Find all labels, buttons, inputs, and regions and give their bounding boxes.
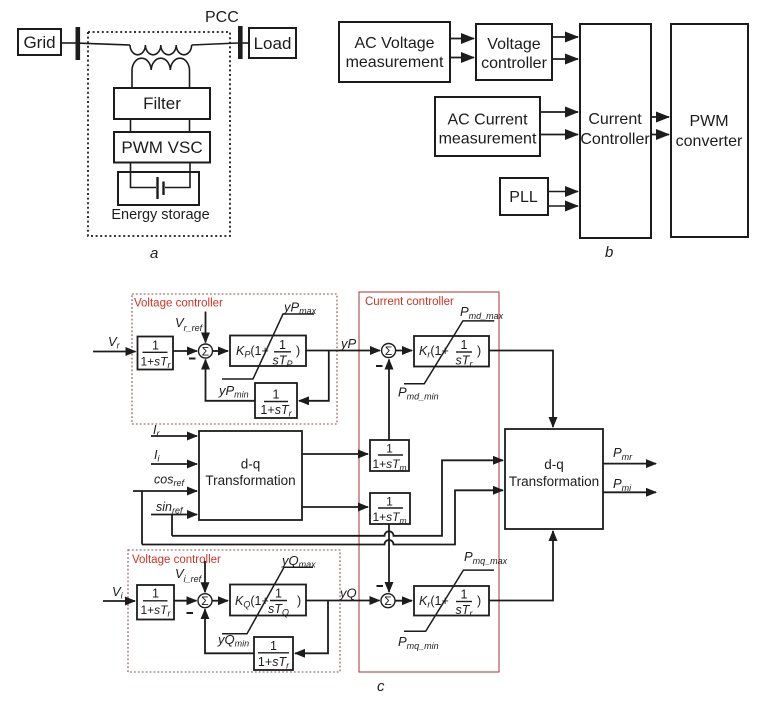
wire sin_ref branch down <box>171 515 173 536</box>
svg-text:measurement: measurement <box>346 54 444 71</box>
saturation limits on KQ block <box>222 567 313 634</box>
svg-text:KQ(1+: KQ(1+ <box>235 594 269 610</box>
svg-text:Grid: Grid <box>23 33 55 52</box>
wire Pmi output <box>603 491 656 493</box>
svg-text:d-q: d-q <box>241 457 261 472</box>
svg-text:measurement: measurement <box>439 131 537 148</box>
box Current Controller (b) <box>580 24 651 238</box>
wire Filter to PWM VSC right <box>189 119 191 132</box>
svg-text:Current: Current <box>588 111 642 128</box>
block lag 1/(1+sTm) d <box>370 440 409 473</box>
wire bus to transformer primary <box>80 43 130 45</box>
wire Pmr output <box>603 463 656 465</box>
box AC Current measurement <box>435 97 540 156</box>
minus sign lower CC sum <box>377 585 384 587</box>
box Grid <box>18 29 61 55</box>
svg-text:Load: Load <box>254 34 292 53</box>
wire Filter to PWM VSC left <box>130 119 132 132</box>
wire AC Voltage meas to Voltage controller 2 <box>450 57 474 59</box>
svg-text:1: 1 <box>461 588 468 602</box>
wire dq1 d-output to lag m1 <box>302 453 368 455</box>
svg-text:Current controller: Current controller <box>365 296 454 308</box>
wire cos_ref route to dq2 lower input with hop <box>142 490 503 544</box>
svg-text:1+sTr: 1+sTr <box>260 403 292 419</box>
block PI Kr lower <box>414 586 489 619</box>
svg-text:PCC: PCC <box>205 9 239 26</box>
summing junction lower VC <box>198 594 212 609</box>
wire Ir input <box>151 435 197 437</box>
wire KQ output drop to feedback lower <box>295 601 328 654</box>
minus sign upper VC sum <box>189 358 196 360</box>
svg-text:Transformation: Transformation <box>509 474 599 489</box>
enclosure Voltage controller (top, red dashed) <box>132 294 337 424</box>
svg-text:): ) <box>297 594 301 608</box>
summing junction upper VC <box>199 344 213 359</box>
wire KP output drop to feedback upper <box>299 351 329 401</box>
block PI Kr upper <box>414 336 489 369</box>
wire Vr input <box>93 351 136 353</box>
wire transformer to PCC bus <box>192 43 238 45</box>
dashed enclosure a <box>88 32 230 236</box>
wire PLL to Current Controller 1 <box>548 191 578 193</box>
svg-text:PLL: PLL <box>509 189 538 206</box>
wire sum to Kr block upper <box>396 350 412 352</box>
svg-text:Transformation: Transformation <box>205 473 295 488</box>
wire sum to KQ block <box>212 600 228 602</box>
saturation limits on Kr lower <box>404 570 494 631</box>
svg-text:1: 1 <box>273 388 280 402</box>
block feedback 1/(1+sTr) upper <box>255 383 297 419</box>
wire sum to Kr block lower <box>395 600 412 602</box>
wire feedback d-current up into sum <box>388 360 390 441</box>
svg-text:Voltage controller: Voltage controller <box>132 554 221 566</box>
wire feedback q-current down to lower sum <box>388 524 390 592</box>
wire Vi_ref into sum <box>204 561 206 592</box>
svg-text:Σ: Σ <box>385 344 392 358</box>
wire Current Controller to PWM converter 1 <box>651 116 669 118</box>
wire cos_ref branch down <box>141 491 143 545</box>
summing junction lower CC <box>381 594 395 609</box>
wire Voltage controller to Current Controller 2 <box>552 58 578 60</box>
svg-text:1: 1 <box>270 639 277 653</box>
enclosure Voltage controller (bottom, red dashed) <box>128 550 340 672</box>
svg-text:Voltage controller: Voltage controller <box>134 298 223 310</box>
block PI KP <box>230 336 306 370</box>
minus sign upper CC sum <box>376 365 383 367</box>
wire Kr upper output to dq2 top <box>489 351 553 428</box>
block feedback 1/(1+sTr) lower <box>254 637 293 671</box>
box Voltage controller (b) <box>476 24 552 80</box>
wire AC Current meas to Current Controller 2 <box>540 134 578 136</box>
wire AC Current meas to Current Controller 1 <box>540 111 578 113</box>
block PI KQ <box>230 585 306 618</box>
svg-text:1: 1 <box>386 442 393 456</box>
svg-text:1: 1 <box>279 338 286 352</box>
svg-text:a: a <box>150 245 158 262</box>
wire lag to sum lower VC <box>174 600 197 602</box>
box Load <box>249 28 296 58</box>
wire Grid to left bus <box>61 42 76 44</box>
svg-text:): ) <box>477 594 481 608</box>
svg-text:AC Voltage: AC Voltage <box>354 35 434 52</box>
wire Ii input <box>151 463 197 465</box>
svg-text:1: 1 <box>152 339 159 353</box>
svg-text:Σ: Σ <box>201 594 208 608</box>
svg-text:Σ: Σ <box>384 594 391 608</box>
svg-text:Σ: Σ <box>202 345 209 359</box>
svg-text:yP: yP <box>340 336 357 351</box>
svg-text:Controller: Controller <box>580 131 650 148</box>
svg-text:yQ: yQ <box>339 586 357 601</box>
svg-text:Voltage: Voltage <box>487 36 540 53</box>
svg-text:1+sTr: 1+sTr <box>140 603 171 619</box>
svg-text:PWM: PWM <box>689 113 728 130</box>
wire sin_ref input <box>151 514 197 516</box>
block lag 1/(1+sTr) lower <box>137 585 174 620</box>
wire feedback lower to sum <box>205 609 254 653</box>
wire sum to KP block <box>213 350 229 352</box>
bus bar left <box>76 27 81 60</box>
block lag 1/(1+sTr) upper <box>138 337 174 370</box>
svg-text:c: c <box>377 678 385 695</box>
minus sign lower VC sum <box>187 612 194 614</box>
wire yQ from KQ to current sum lower <box>306 600 380 602</box>
block lag 1/(1+sTm) q <box>370 493 410 526</box>
svg-text:controller: controller <box>481 55 547 72</box>
svg-text:1: 1 <box>275 587 282 601</box>
wire dq1 q-output to lag m2 <box>302 506 368 508</box>
wire PCC bus to Load <box>243 42 249 44</box>
wire lag to sum upper VC <box>173 350 197 352</box>
box PLL <box>500 178 548 215</box>
svg-text:b: b <box>605 244 613 261</box>
wire cos_ref input <box>133 490 197 492</box>
block dq transformation 1 <box>199 431 302 520</box>
wire secondary left leg to Filter <box>131 70 133 88</box>
wire PWM VSC to battery right <box>165 163 190 188</box>
summing junction upper CC <box>382 344 396 359</box>
svg-text:): ) <box>296 344 300 358</box>
svg-text:Filter: Filter <box>143 94 181 113</box>
wire AC Voltage meas to Voltage controller 1 <box>450 38 474 40</box>
wire Kr lower output to dq2 bottom <box>489 531 553 601</box>
svg-text:converter: converter <box>676 133 743 150</box>
wire Vi input <box>103 600 135 602</box>
svg-text:1: 1 <box>386 495 393 509</box>
svg-text:AC Current: AC Current <box>447 112 528 129</box>
wire PLL to Current Controller 2 <box>548 205 578 207</box>
transformer secondary winding L2 <box>132 58 190 70</box>
wire secondary right leg to Filter <box>189 70 191 88</box>
svg-text:PWM VSC: PWM VSC <box>121 138 202 157</box>
saturation limits on KP block <box>222 314 314 379</box>
enclosure Current controller (red) <box>359 292 499 672</box>
svg-text:1+sTr: 1+sTr <box>258 655 290 671</box>
svg-text:1: 1 <box>461 338 468 352</box>
wire yP from KP to current sum <box>306 350 380 352</box>
battery cell plate long <box>156 177 158 199</box>
svg-text:): ) <box>477 344 481 358</box>
transformer primary winding L1 <box>130 45 192 55</box>
battery cell plate short <box>162 182 164 196</box>
box Filter <box>114 88 210 119</box>
svg-text:1+sTr: 1+sTr <box>140 354 171 370</box>
block dq transformation 2 <box>505 429 603 529</box>
svg-text:1: 1 <box>152 587 159 601</box>
svg-text:Energy storage: Energy storage <box>111 207 209 223</box>
box AC Voltage measurement <box>339 22 450 82</box>
wire Voltage controller to Current Controller 1 <box>552 36 578 38</box>
box PWM converter <box>671 24 748 237</box>
wire feedback upper to sum <box>206 360 256 401</box>
bus bar PCC <box>238 26 243 59</box>
wire sin_ref route to dq2 upper input with hop <box>172 460 503 536</box>
wire PWM VSC to battery left <box>131 163 157 188</box>
wire Current Controller to PWM converter 2 <box>651 134 669 136</box>
saturation limits on Kr upper <box>404 321 494 384</box>
svg-text:d-q: d-q <box>544 457 564 472</box>
box Energy storage <box>118 172 199 205</box>
wire Vr_ref into sum <box>205 312 207 343</box>
box PWM VSC <box>114 132 210 163</box>
